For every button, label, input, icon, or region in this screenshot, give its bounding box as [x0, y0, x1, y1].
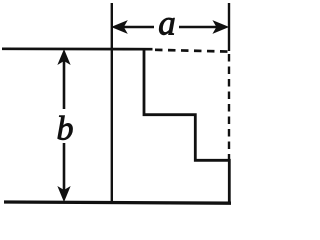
dimension b: top arrowhead [58, 50, 69, 64]
staircase outline [144, 50, 229, 203]
left vertical extension line [111, 3, 113, 202]
dimension b: bottom arrowhead [58, 187, 69, 201]
dimension b: bottom arrow segment [63, 143, 66, 198]
dimension a: left arrowhead [112, 21, 126, 33]
right vertical dashed line [228, 54, 230, 159]
svg-text:a: a [158, 4, 176, 43]
dimension a: left arrow segment [115, 26, 154, 29]
top horizontal dashed line [155, 50, 230, 52]
bottom horizontal line [4, 202, 231, 203]
dimension a: right arrow segment [179, 26, 225, 29]
svg-text:b: b [57, 110, 74, 147]
right vertical solid segment (top) [228, 3, 230, 51]
dimension a: right arrowhead [214, 21, 228, 33]
top horizontal solid line [2, 47, 153, 50]
dimension b: top arrow segment [63, 53, 66, 109]
